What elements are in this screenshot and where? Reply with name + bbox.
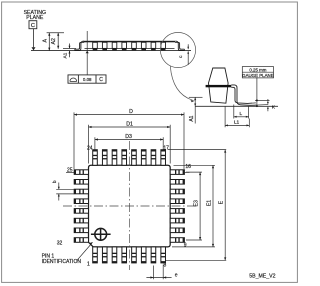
- pin 16 leader tick: [184, 171, 189, 173]
- dim E3: [186, 172, 202, 240]
- pin1 identification circle: [91, 228, 111, 241]
- body cross-section: [209, 68, 229, 103]
- seating plane line: [31, 50, 191, 52]
- svg-text:D3: D3: [125, 134, 132, 140]
- seating line of detail: [195, 105, 278, 107]
- svg-text:8: 8: [164, 263, 167, 269]
- dim b: [56, 183, 74, 201]
- svg-text:PLANE: PLANE: [26, 15, 44, 21]
- svg-text:A1: A1: [189, 115, 195, 121]
- pin 25 leader tick: [66, 171, 74, 173]
- svg-text:9: 9: [184, 242, 187, 248]
- coplanarity leader line: [86, 31, 88, 75]
- coplanarity datum triangle: [86, 51, 89, 53]
- body top band: [83, 41, 175, 43]
- detail leader arc: [170, 66, 192, 100]
- svg-text:24: 24: [87, 146, 93, 152]
- svg-text:GAUGE PLANE: GAUGE PLANE: [242, 73, 274, 78]
- dim L1: [225, 106, 249, 127]
- svg-text:A1: A1: [63, 52, 69, 58]
- dim D3: [95, 137, 163, 150]
- svg-text:32: 32: [57, 240, 63, 246]
- centerline horizontal: [63, 205, 196, 207]
- bottom row leads (pins 1..8): [93, 247, 166, 263]
- gauge plane vertical: [256, 78, 258, 106]
- dim A extension line (package top): [47, 32, 64, 34]
- dim E1: [172, 165, 215, 247]
- lead bend outer: [231, 85, 256, 105]
- toe thin extension: [252, 102, 256, 104]
- svg-text:25: 25: [67, 167, 73, 173]
- dim A1 side-view line: [69, 44, 71, 58]
- svg-text:C: C: [31, 23, 35, 29]
- svg-text:D1: D1: [126, 121, 133, 127]
- svg-text:E: E: [219, 200, 225, 204]
- body bottom line: [85, 47, 175, 49]
- left lead profile: [75, 41, 84, 50]
- svg-text:A: A: [42, 39, 48, 43]
- svg-text:E3: E3: [194, 200, 200, 206]
- svg-text:0.25 mm: 0.25 mm: [249, 67, 266, 72]
- side view lead feet: [93, 48, 166, 50]
- detail circle: [160, 32, 195, 67]
- package body: [89, 165, 171, 247]
- dim e: [146, 265, 171, 280]
- svg-text:D: D: [129, 109, 133, 115]
- svg-text:1: 1: [87, 261, 90, 267]
- gauge plane box: [242, 67, 273, 78]
- svg-text:L1: L1: [234, 119, 240, 125]
- dim L: [234, 105, 249, 119]
- svg-text:e: e: [175, 273, 178, 279]
- datum C box: [29, 21, 37, 29]
- dim arrows A / A2 / A1: [48, 33, 70, 54]
- svg-text:17: 17: [163, 146, 169, 152]
- dim E: [166, 150, 227, 261]
- svg-text:C: C: [99, 77, 103, 83]
- seating plane symbol (dome): [70, 78, 77, 81]
- body bottom extension: [63, 48, 76, 50]
- left column leads (pins 25..32): [74, 170, 88, 243]
- right column leads (pins 16..9): [170, 170, 184, 243]
- top row leads (pins 24..17): [93, 150, 166, 166]
- datum C leader line: [33, 29, 35, 48]
- dim c lines: [187, 44, 189, 65]
- dim D1: [89, 125, 171, 164]
- svg-text:0.08: 0.08: [83, 77, 92, 82]
- datum C triangle: [32, 47, 36, 50]
- feature control frame: [68, 75, 106, 83]
- svg-text:IDENTIFICATION: IDENTIFICATION: [42, 259, 82, 265]
- gauge plane horizontal: [255, 99, 270, 101]
- side view front-row leads: [93, 42, 166, 48]
- right lead profile: [176, 41, 185, 50]
- dim A2 line: [57, 33, 59, 49]
- svg-text:5B_ME_V2: 5B_ME_V2: [249, 274, 275, 280]
- svg-text:A2: A2: [51, 38, 57, 44]
- centerline vertical: [128, 141, 130, 270]
- body bottom extension: [189, 96, 203, 98]
- pin1 note leader: [77, 244, 92, 261]
- dim A1 detail: [194, 97, 196, 123]
- svg-text:L: L: [239, 111, 242, 117]
- dim D: [74, 112, 184, 169]
- package body side profile: [75, 41, 185, 51]
- lead (thick) inside body: [206, 85, 232, 87]
- svg-text:16: 16: [185, 164, 191, 170]
- svg-text:b: b: [52, 180, 58, 183]
- dim A line: [48, 33, 50, 51]
- toe extension / K angle: [256, 104, 268, 107]
- svg-text:E1: E1: [206, 200, 212, 206]
- lead bend inner: [231, 87, 252, 103]
